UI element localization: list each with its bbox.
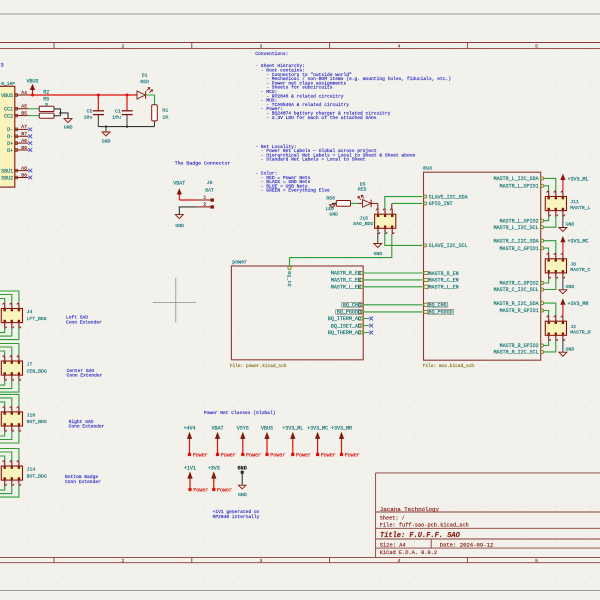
wire [0,485,19,497]
svg-text:VBAT: VBAT [211,426,223,432]
svg-text:J4: J4 [27,309,33,315]
svg-text:2: 2 [122,558,125,564]
svg-text:5: 5 [535,558,538,564]
junction VBUS [31,94,34,97]
svg-text:Conn Extender: Conn Extender [69,424,105,430]
ground GND flag [238,485,246,489]
svg-text:LFT_BDG: LFT_BDG [27,316,47,322]
wire MASTR_R_I2C_SDA [544,303,556,316]
wire [0,295,12,304]
wire to gnd [61,113,69,119]
svg-text:4: 4 [398,558,401,564]
svg-text:Power: Power [270,453,285,459]
power symbol +3V3_ML [561,175,565,180]
resistor R1 [152,105,158,121]
svg-text:- RP2040 & related circuitry: - RP2040 & related circuitry [266,93,343,99]
svg-text:2: 2 [122,44,125,50]
mux sheet pin SLAVE_I2C_SCL [424,244,427,247]
wire [0,351,5,356]
svg-text:BQ_THERM_AD: BQ_THERM_AD [328,330,361,336]
frame bottom band [0,556,600,558]
J3 pin B6 D+ [15,149,29,151]
svg-text:C1: C1 [115,108,121,114]
wire MASTR_L_GPIO1 [544,186,549,191]
wire R5 to gnd [54,115,61,117]
svg-text:3: 3 [260,44,263,50]
wire MASTR_C_I2C_SDA [544,241,556,254]
svg-text:File: mux.kicad_sch: File: mux.kicad_sch [423,363,475,369]
ground GND [64,119,72,123]
svg-text:MASTR_C: MASTR_C [570,267,590,273]
svg-text:MASTR_L_GPIO1: MASTR_L_GPIO1 [500,184,539,190]
svg-text:Conventions:: Conventions: [255,51,288,57]
svg-text:D1: D1 [142,73,148,79]
svg-text:MASTR_L_I2C_SDA: MASTR_L_I2C_SDA [494,176,539,182]
wire [0,398,12,407]
svg-text:MASTR_L: MASTR_L [570,205,590,211]
svg-text:Conn Extender: Conn Extender [67,373,103,379]
svg-text:C5: C5 [87,108,93,114]
mux sheet pin GPIO_INT [424,202,427,205]
svg-text:RHT_BDG: RHT_BDG [27,419,47,425]
svg-text:10u: 10u [84,115,93,121]
power symbol +3V3_MC [561,237,565,242]
wire [0,449,19,461]
svg-text:VBUS: VBUS [261,426,273,432]
svg-text:LED: LED [326,206,334,212]
power symbol +3V3_MR [561,299,565,304]
wire power to mux [364,304,423,306]
svg-text:GND: GND [566,222,575,228]
svg-text:D-: D- [7,127,13,133]
ground GND J16 [374,244,382,248]
paper edge top [0,13,600,15]
svg-text:A4: A4 [21,90,27,96]
svg-text:GPIO_INT: GPIO_INT [429,201,453,207]
svg-text:VSYS: VSYS [237,426,249,432]
capacitor C1 [126,95,128,111]
svg-text:SBU1: SBU1 [1,168,13,174]
wire CC1 [28,108,39,110]
svg-text:MASTR_R_I2C_SDA: MASTR_R_I2C_SDA [494,301,539,307]
svg-text:MASTR_L_I2C_SCL: MASTR_L_I2C_SCL [494,225,539,231]
power sheet pin BQ_ITERM_AD [359,317,364,320]
svg-text:BAT: BAT [205,187,214,193]
svg-text:MASTR_C_EN: MASTR_C_EN [331,278,361,284]
wire VBUS [28,94,136,96]
wire [0,485,12,493]
wire MASTR_R_I2C_SCL [544,341,556,352]
svg-text:MASTR_R_EN: MASTR_R_EN [429,271,459,277]
wire [0,347,12,356]
resistor R5 [39,113,54,118]
svg-text:Power Net Classes (Global): Power Net Classes (Global) [204,410,276,416]
svg-text:Size: A4: Size: A4 [380,542,406,548]
svg-text:+3V3_ML: +3V3_ML [568,176,589,182]
svg-text:+3V3_ML: +3V3_ML [282,426,303,432]
wire [0,456,5,461]
wire [0,380,19,392]
svg-text:Power: Power [193,453,208,459]
mux sheet pin MASTR_C_GPIO1 [541,247,544,250]
connector J11 body [545,197,566,211]
mux sheet pin MASTR_L_GPIO2 [541,219,544,222]
junction C1 top [126,94,129,97]
svg-text:- Standard Net Labels = Local: - Standard Net Labels = Local to Sheet [261,157,366,163]
svg-text:R5: R5 [43,97,49,103]
ground GND J8 [562,278,564,290]
svg-text:D+: D+ [7,148,13,154]
power sheet pin MASTR_L_EN [359,285,364,288]
svg-text:MASTR_R: MASTR_R [570,330,590,336]
mux sheet pin MASTR_R_GPIO2 [541,344,544,347]
connector J4 body [1,309,22,323]
svg-text:File: fuff-sao-pcb.kicad_sch: File: fuff-sao-pcb.kicad_sch [380,523,469,529]
svg-text:D+: D+ [7,141,13,147]
svg-text:GND: GND [566,346,575,352]
svg-text:Conn Extender: Conn Extender [65,479,101,485]
svg-text:+3V3_MC: +3V3_MC [307,426,328,432]
wire VBAT to J5 [179,199,196,201]
junction C5 [97,94,100,97]
power sheet pin BQ_CHG [359,303,364,306]
svg-text:BOT_BDG: BOT_BDG [27,473,47,479]
ground GND J11 [562,216,564,228]
wire D5 to J16 [371,202,378,204]
svg-text:MASTR_R_GPIO1: MASTR_R_GPIO1 [500,308,539,314]
wire MASTR_C_GPIO1 [544,248,549,253]
svg-text:VBAT: VBAT [173,181,185,187]
svg-text:MASTR_L_GPIO2: MASTR_L_GPIO2 [500,218,539,224]
wire [0,431,12,439]
wire power to mux [364,272,423,274]
LED D1 [137,91,145,99]
frame top band [0,42,600,44]
svg-text:BQ_PGOOD: BQ_PGOOD [429,310,453,316]
wire MASTR_R_GPIO2 [544,341,549,346]
mux sheet pin BQ_CHG [423,303,428,306]
svg-text:SAO_BDG: SAO_BDG [353,221,373,227]
svg-text:D5: D5 [360,181,366,187]
ground GND J2 [562,341,564,353]
wire [0,344,19,356]
svg-text:Sheet: /: Sheet: / [380,516,405,522]
svg-text:Jacana Technology: Jacana Technology [380,506,440,513]
svg-text:BQ_CHG: BQ_CHG [429,303,447,309]
svg-text:A6: A6 [21,138,27,144]
svg-text:Title: F.U.F.F. SAO: Title: F.U.F.F. SAO [380,532,461,540]
wire [0,452,12,461]
svg-text:5: 5 [535,44,538,50]
svg-text:+3V3: +3V3 [208,465,220,471]
wire MASTR_L_I2C_SDA [544,178,556,191]
wire [0,431,19,443]
svg-text:R2: R2 [43,89,49,95]
svg-text:GND: GND [238,466,247,472]
svg-text:RED: RED [140,79,149,85]
svg-text:J10: J10 [27,413,36,419]
svg-text:MASTR_C_GPIO1: MASTR_C_GPIO1 [500,246,539,252]
mux sheet pin MASTR_L_I2C_SCL [541,226,544,229]
svg-text:GND: GND [175,223,184,229]
svg-text:VBUS: VBUS [26,79,38,85]
power sheet pin MASTR_R_EN [359,271,364,274]
svg-text:The Badge Connector: The Badge Connector [175,161,231,167]
svg-text:RP2040 internally: RP2040 internally [213,514,260,520]
wire [0,328,5,333]
mux sheet pin MASTR_R_GPIO1 [541,309,544,312]
svg-text:+1V1: +1V1 [184,465,196,471]
wire power to mux [364,279,423,281]
svg-text:Power: Power [246,453,261,459]
svg-text:GND: GND [64,125,73,131]
svg-text:J16: J16 [359,216,368,222]
connector J5 pin 2 [197,206,211,208]
svg-text:SLAVE_I2C_SDA: SLAVE_I2C_SDA [429,194,468,200]
J3 pin B8 SBU2 [15,177,29,179]
svg-text:1: 1 [203,195,206,201]
wire gnd stub [105,127,107,132]
wire MASTR_R_GPIO1 [544,311,549,316]
svg-text:B7: B7 [21,131,27,137]
wire R1 bottom [154,121,156,127]
wire [0,380,5,385]
power symbol VBAT [177,189,181,194]
connector J7 body [1,361,22,375]
svg-text:1K: 1K [162,115,168,121]
svg-text:- 3.3V LDO for each of the att: - 3.3V LDO for each of the attached SAOs [266,115,377,121]
mux sheet pin BQ_PGOOD [423,310,428,313]
svg-text:+4V4: +4V4 [183,426,195,432]
wire [0,394,19,406]
connector J16 body [375,214,396,228]
wire [0,431,5,436]
J3 pin B5 CC2 [15,115,29,117]
svg-text:CC2: CC2 [4,113,13,119]
svg-text:B6: B6 [21,145,27,151]
connector J2 body [545,321,566,335]
mux sheet pin MASTR_C_GPIO2 [541,282,544,285]
svg-text:- GREEN = Everything Else: - GREEN = Everything Else [261,188,330,194]
svg-text:Conn Extender: Conn Extender [66,319,102,325]
svg-text:MASTR_L_EN: MASTR_L_EN [331,285,361,291]
wire MASTR_L_GPIO2 [544,216,549,221]
connector J8 body [545,259,566,273]
svg-text:MASTR_R_GPIO2: MASTR_R_GPIO2 [500,343,539,349]
wire R50 to D5 [351,202,358,204]
svg-text:BQ_ITERM_AD: BQ_ITERM_AD [328,316,361,322]
J3 pin A7 D- [15,128,29,130]
J3 pin A5 CC1 [15,108,29,110]
svg-text:J5: J5 [207,180,213,186]
junction gnd bus C1 [126,125,128,127]
ground GND J5 [175,215,183,219]
power sheet pin BQ_ISET_AD [359,324,364,327]
wire GPIO_INT [391,203,393,209]
wire [0,380,12,388]
svg-text:CEN_BDG: CEN_BDG [27,368,47,374]
mux sheet pin MASTR_R_I2C_SDA [541,302,544,305]
wire power to mux [364,311,423,313]
J3 pin A8 SBU1 [15,170,29,172]
wire D1 to R1 [146,95,155,105]
svg-text:Power: Power [217,488,232,494]
mux sheet pin MASTR_L_EN [423,285,428,288]
svg-text:MASTR_C_I2C_SDA: MASTR_C_I2C_SDA [494,238,539,244]
mux sheet pin MASTR_L_I2C_SDA [541,177,544,180]
mux sheet pin MASTR_R_I2C_SCL [541,350,544,353]
wire J16 gnd [377,233,379,244]
connector J5 pin 1 [197,199,211,201]
wire R2 to gnd [54,109,61,116]
J3 pin B7 D- [15,135,29,137]
wire power to mux [364,286,423,288]
svg-text:R: R [45,103,48,108]
mux sheet pin MASTR_C_EN [423,278,428,281]
svg-text:MASTR_R_I2C_SCL: MASTR_R_I2C_SCL [494,350,539,356]
wire [0,328,19,340]
svg-text:GND: GND [238,492,247,498]
wire [0,402,5,407]
svg-text:VBUS: VBUS [1,93,13,99]
svg-text:MASTR_C_GPIO2: MASTR_C_GPIO2 [500,281,539,287]
svg-text:SLAVE_I2C_SCL: SLAVE_I2C_SCL [429,243,468,249]
svg-text:MASTR_R_EN: MASTR_R_EN [331,271,361,277]
wire [0,291,19,303]
svg-text:Power: Power [321,453,336,459]
wire MASTR_C_I2C_SCL [544,278,556,289]
svg-text:Power: Power [221,453,236,459]
svg-text:A5: A5 [21,104,27,110]
mux sheet pin MASTR_C_I2C_SDA [541,239,544,242]
wire J16 pin1 [377,203,379,209]
LED D5 [358,202,363,204]
svg-text:A7: A7 [21,124,27,130]
power sheet pin MASTR_C_EN [359,278,364,281]
power sheet pin BQ_PGOOD [359,310,364,313]
svg-text:KiCad E.D.A. 8.0.2: KiCad E.D.A. 8.0.2 [380,550,437,556]
svg-text:BQ_ISET_AD: BQ_ISET_AD [331,323,361,329]
svg-text:J7: J7 [27,362,33,368]
svg-text:J11: J11 [570,199,579,205]
junction gnd bus tap [105,125,107,127]
svg-text:power: power [232,260,247,266]
svg-text:R50: R50 [326,195,335,201]
svg-text:J3: J3 [0,63,4,69]
wire SLAVE_I2C_SDA [385,197,423,209]
wire CC2 [28,115,39,117]
wire MASTR_L_I2C_SCL [544,216,556,227]
svg-text:RED: RED [358,187,367,193]
J3 pin A4 VBUS [15,94,29,96]
svg-text:R1: R1 [162,107,168,113]
mux sheet pin SLAVE_I2C_SDA [424,195,427,198]
svg-text:4: 4 [398,44,401,50]
svg-text:BQ_CE: BQ_CE [286,271,292,287]
svg-text:GND: GND [374,251,383,257]
J3 pin A6 D+ [15,142,29,144]
ground GND bus [102,132,110,136]
svg-text:+3V3_MC: +3V3_MC [568,239,589,245]
svg-text:J2: J2 [570,324,576,330]
power sheet pin BQ_THERM_AD [359,331,364,334]
svg-text:D-: D- [7,134,13,140]
mux sheet pin MASTR_C_I2C_SCL [541,288,544,291]
wire gnd bus [98,126,154,128]
connector J10 body [1,412,22,426]
wire SLAVE_I2C_SCL [385,232,423,245]
svg-text:Power: Power [345,453,360,459]
svg-text:SBU2: SBU2 [1,175,13,181]
wire [0,299,5,304]
svg-text:+3V3_MR: +3V3_MR [568,301,589,307]
svg-text:10u: 10u [112,115,121,121]
paper edge bottom [0,590,600,592]
svg-text:Power: Power [296,453,311,459]
svg-text:GND: GND [102,138,111,144]
svg-text:MASTR_C_I2C_SCL: MASTR_C_I2C_SCL [494,287,539,293]
junction R pulldown [59,112,61,114]
svg-text:J8: J8 [570,262,576,268]
wire [0,485,5,490]
svg-text:MASTR_L_EN: MASTR_L_EN [429,285,459,291]
mux sheet pin MASTR_L_GPIO1 [541,184,544,187]
svg-text:BQ_CHG: BQ_CHG [343,303,361,309]
svg-text:B8: B8 [21,172,27,178]
svg-text:Power: Power [193,488,208,494]
svg-text:2: 2 [203,202,206,208]
svg-text:CC1: CC1 [4,107,13,113]
svg-text:MASTR_C_EN: MASTR_C_EN [429,278,459,284]
USB connector J3 body [0,86,15,187]
connector J14 body [1,466,22,480]
wire [0,328,12,336]
svg-text:3: 3 [260,558,263,564]
wire J5 to gnd [179,207,196,215]
wire MASTR_C_GPIO2 [544,278,549,283]
svg-text:mux: mux [423,165,432,171]
resistor R2 [39,106,54,111]
svg-text:+3V3_MR: +3V3_MR [331,426,352,432]
mux sheet pin MASTR_R_EN [423,271,428,274]
svg-text:Date: 2024-09-12: Date: 2024-09-12 [440,541,494,548]
wire BQ_CE [290,234,392,266]
svg-text:GND: GND [329,212,338,218]
power symbol VBUS [30,85,34,90]
svg-text:A8: A8 [21,165,27,171]
sheet pin BQ_CE [288,266,291,269]
title block [375,473,377,558]
crosshair marker [153,302,196,304]
svg-text:BQ_PGOOD: BQ_PGOOD [337,310,361,316]
svg-text:J14: J14 [27,467,36,473]
capacitor C5 [97,95,99,111]
svg-text:File: power.kicad_sch: File: power.kicad_sch [230,363,287,369]
svg-text:GND: GND [566,284,575,290]
ground GND R50 [332,203,336,204]
svg-text:B5: B5 [21,110,27,116]
